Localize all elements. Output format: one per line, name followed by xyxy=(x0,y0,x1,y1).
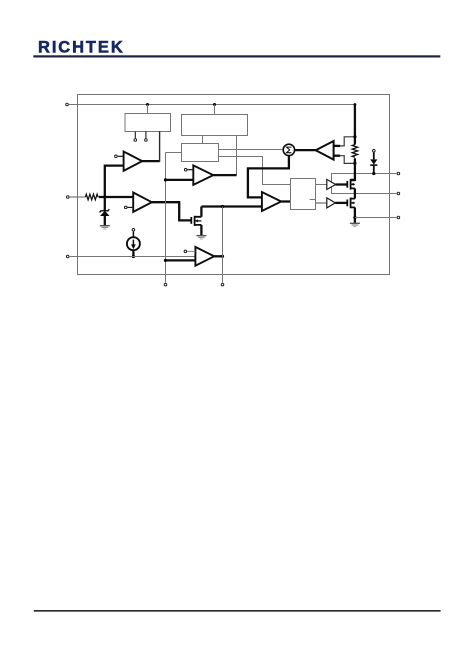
node U6 output xyxy=(221,255,224,258)
transistor Q1 xyxy=(347,179,355,199)
wire SW loop (pins P6/P7) xyxy=(332,174,397,194)
node rail-box2 xyxy=(213,103,216,106)
node I1 output xyxy=(132,255,135,258)
summer sigma xyxy=(283,144,294,155)
wire CS amp output to summer xyxy=(295,149,316,151)
op-amp U4 xyxy=(115,152,143,171)
wire P2 to resistor xyxy=(69,196,85,198)
op-amp U5 xyxy=(124,193,151,212)
wire Q3 drain to comparator U8 xyxy=(201,205,262,207)
node R2 top xyxy=(353,135,356,138)
wire junction to zener xyxy=(104,197,106,210)
pin P4 (bottom) xyxy=(164,283,167,286)
header rule xyxy=(33,55,440,57)
pin P7 (right, middle) xyxy=(397,192,400,195)
ground G2 xyxy=(196,235,206,237)
driver T2 xyxy=(327,198,336,208)
current sense amp A1 xyxy=(316,141,334,160)
resistor R1 xyxy=(85,194,98,200)
wire U9 upper output xyxy=(316,184,327,186)
comparator U8 xyxy=(262,192,281,211)
pin P5 (bottom) xyxy=(221,283,224,286)
transistor Q3 xyxy=(191,207,201,236)
wire U7 output xyxy=(213,174,236,176)
wire sense upper xyxy=(334,137,355,146)
wire vertical bus x165 (pin P4 to U3 input) xyxy=(165,153,167,283)
wire stub rail to box U2 xyxy=(214,105,216,115)
transistor Q2 xyxy=(347,198,355,223)
op-amp U6 xyxy=(184,247,214,266)
node Q2 source xyxy=(353,216,356,219)
pin P1 (top-left supply pin) xyxy=(66,103,69,106)
wire U6 lower input xyxy=(166,259,196,261)
op-amp U4 output wire xyxy=(142,160,159,162)
op-amp U7 xyxy=(184,165,213,184)
wire R1 to op-amp U5 xyxy=(99,196,134,198)
ground G3 xyxy=(350,222,360,224)
pin stub U1-b xyxy=(145,132,147,139)
node bus-U7 input xyxy=(164,178,167,181)
node rail-box1 xyxy=(146,103,149,106)
wire Q2 source to pin P8 xyxy=(355,217,397,219)
zener Z1 xyxy=(100,209,110,225)
pin stub U1-a xyxy=(134,132,136,139)
wire T2 to Q2 gate xyxy=(335,202,347,204)
wire T1 to Q1 gate xyxy=(336,183,347,185)
box U1 xyxy=(125,114,171,132)
wire U5 output to Q3 gate xyxy=(152,202,191,220)
node SW-diode xyxy=(372,172,375,175)
wire stub rail to box U1 xyxy=(147,105,149,114)
pin P2 (left middle) xyxy=(67,196,70,199)
wire top supply rail xyxy=(69,104,355,106)
IC boundary border xyxy=(78,95,390,275)
wire U3 left input from vertical bus xyxy=(166,152,182,154)
wire U2 to U3 connector xyxy=(202,136,204,144)
current source I1 xyxy=(127,229,140,257)
wire U4 lower input xyxy=(105,166,124,197)
pin P3 (left bottom) xyxy=(66,255,69,258)
box U2 xyxy=(182,115,248,136)
box U9 (PWM logic) xyxy=(291,179,316,210)
pin U1-b xyxy=(145,139,148,142)
wire U4 output up to U1 xyxy=(159,131,161,162)
wire U3 lower output to PWM box xyxy=(219,157,291,185)
box U3 xyxy=(182,144,219,162)
footer rule xyxy=(34,610,441,612)
svg-text:RICHTEK: RICHTEK xyxy=(38,39,125,57)
wire U6 output xyxy=(214,255,222,257)
node R2 bottom xyxy=(353,162,356,165)
wire R2 to Q1 drain xyxy=(350,158,355,180)
wire supply down to resistor R2 xyxy=(354,104,356,144)
resistor R2 xyxy=(352,145,357,158)
node Q3-U6 bus xyxy=(221,205,224,208)
wire U7 lower input xyxy=(166,179,194,181)
wire P3 to op-amp U6 xyxy=(70,256,196,258)
wire U9 lower output xyxy=(316,202,327,204)
tick inside U9 xyxy=(310,199,316,201)
pin P6 (right, upper) xyxy=(397,172,400,175)
node bus-U6 input xyxy=(164,259,167,262)
wire vertical bus x222 xyxy=(222,207,224,283)
wire U2 bottom to op-amp U7 output (vertical) xyxy=(236,136,238,176)
node rail-corner xyxy=(354,103,357,106)
diode D1 xyxy=(370,150,377,174)
pin U1-a xyxy=(134,139,137,142)
ground G1 xyxy=(100,226,110,229)
wire U3 upper output to summer xyxy=(219,149,284,151)
driver T1 xyxy=(327,179,336,189)
wire sense lower xyxy=(334,156,355,164)
node FB junction xyxy=(103,195,106,198)
wire U8 output xyxy=(281,200,290,202)
pin P8 (right, lower) xyxy=(397,216,400,219)
wire summer to comparator U8 xyxy=(248,156,289,198)
